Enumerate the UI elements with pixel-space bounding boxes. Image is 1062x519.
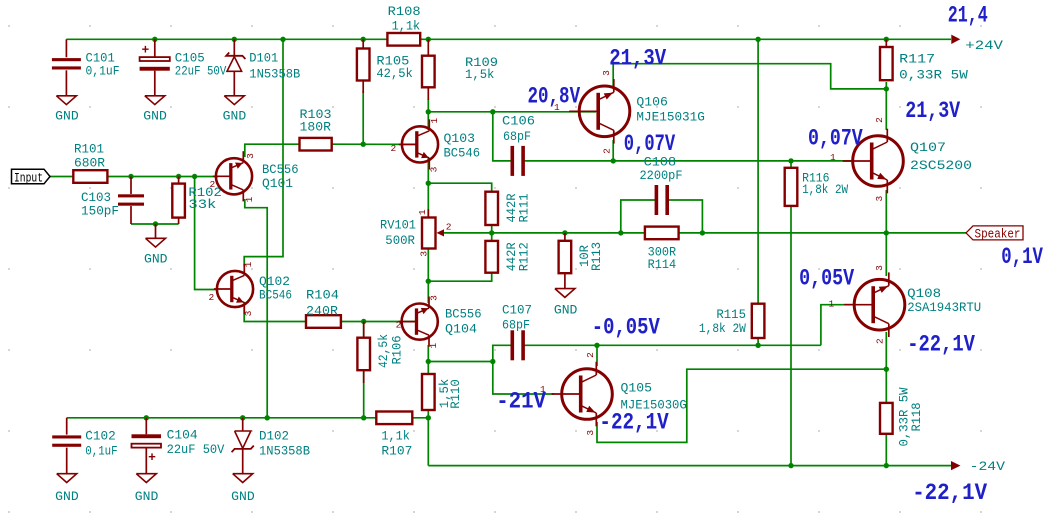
wire C106 right plate to Q106 emitter node bbox=[525, 160, 614, 162]
wire R104 to Q104 base bbox=[341, 321, 417, 323]
pin 3 Q108 bbox=[874, 265, 885, 271]
junction R104 R106 Q104 base bbox=[361, 319, 366, 324]
svg-text:2: 2 bbox=[396, 319, 402, 330]
svg-text:RV101: RV101 bbox=[380, 218, 416, 233]
svg-text:1,8k 2W: 1,8k 2W bbox=[699, 321, 746, 336]
power flag -24V bbox=[951, 461, 961, 470]
svg-text:Q104: Q104 bbox=[445, 321, 477, 336]
svg-text:-24V: -24V bbox=[970, 459, 1006, 474]
svg-text:0,05V: 0,05V bbox=[799, 266, 854, 292]
svg-text:240R: 240R bbox=[306, 304, 338, 319]
wire Q106 emitter node to Q107 base y=161 bbox=[613, 160, 852, 162]
wire Q105 collector stub bbox=[596, 345, 598, 366]
wire R118 bottom to -24V rail bbox=[885, 434, 887, 466]
wire Q103 collector pin bbox=[427, 112, 429, 130]
potentiometer RV101 bbox=[427, 209, 429, 218]
svg-text:2: 2 bbox=[874, 117, 885, 123]
svg-text:BC546: BC546 bbox=[444, 146, 481, 161]
resistor R104 bbox=[306, 315, 341, 328]
junction R103 R105 Q103 base bbox=[361, 142, 366, 147]
transistor Q105 MJE15030G (NPN driver) bbox=[562, 369, 613, 420]
svg-text:Q107: Q107 bbox=[910, 140, 946, 155]
svg-text:R114: R114 bbox=[648, 257, 677, 272]
svg-text:-22,1V: -22,1V bbox=[599, 410, 668, 436]
wire C106 node to Q106 base bbox=[493, 111, 596, 113]
label R112 bbox=[504, 242, 519, 271]
pin 2 Q105 bbox=[585, 352, 596, 358]
junction R102 top bbox=[176, 174, 181, 179]
svg-text:R104: R104 bbox=[306, 288, 339, 303]
svg-text:Speaker: Speaker bbox=[975, 227, 1021, 241]
pin 3 Q107 bbox=[874, 196, 885, 202]
svg-text:C104: C104 bbox=[167, 428, 198, 443]
svg-text:3: 3 bbox=[428, 166, 439, 172]
svg-text:R111: R111 bbox=[517, 193, 532, 222]
svg-text:3: 3 bbox=[585, 430, 596, 436]
svg-text:21,4: 21,4 bbox=[948, 3, 988, 29]
svg-text:GND: GND bbox=[554, 303, 578, 318]
wire input net y=176 (Input to Q101 base) bbox=[50, 176, 218, 178]
label R111 bbox=[504, 193, 519, 222]
resistor R117 bbox=[885, 39, 887, 47]
svg-text:1,1k: 1,1k bbox=[392, 19, 421, 34]
wire Q103 emitter node to RV101 top bbox=[427, 158, 429, 218]
capacitor C103 bbox=[130, 177, 132, 195]
svg-text:20,8V: 20,8V bbox=[528, 83, 581, 109]
pin 3 Q103 bbox=[428, 166, 439, 172]
junction Q103 collector node bbox=[426, 109, 431, 114]
svg-text:-22,1V: -22,1V bbox=[912, 480, 987, 506]
resistor R118 bbox=[880, 403, 893, 434]
svg-text:1: 1 bbox=[428, 343, 439, 349]
wire C108 parallel loop over R114 bbox=[621, 200, 655, 233]
junction speaker node bbox=[884, 230, 889, 235]
junction R118 -24V rail bbox=[884, 463, 889, 468]
junction x=283 riser / +24V rail bbox=[280, 37, 285, 42]
svg-text:D102: D102 bbox=[259, 429, 289, 444]
svg-text:R101: R101 bbox=[74, 142, 104, 157]
svg-text:21,3V: 21,3V bbox=[905, 98, 960, 124]
capacitor C107 bbox=[511, 330, 515, 360]
junction C106 branch bbox=[490, 109, 495, 114]
svg-text:R108: R108 bbox=[388, 4, 421, 19]
junction Q102 base riser bbox=[192, 174, 197, 179]
junction C103 R102 ground node bbox=[153, 221, 158, 226]
label R106 bbox=[376, 334, 391, 368]
wire Q108 emitter to R118 bbox=[885, 332, 887, 403]
svg-text:33k: 33k bbox=[188, 197, 216, 212]
svg-text:1: 1 bbox=[429, 118, 440, 124]
capacitor C106 bbox=[511, 146, 515, 176]
ground C103 R102 bbox=[155, 224, 157, 238]
resistor R110 bbox=[422, 374, 435, 410]
junction C105 / +24V rail bbox=[152, 37, 157, 42]
ground C105 bbox=[145, 96, 165, 105]
pin 3 Q102 bbox=[243, 310, 254, 316]
wire R112 bottom to Q104 collector node y=281 bbox=[428, 273, 491, 282]
resistor R111 bbox=[485, 192, 498, 225]
svg-text:3: 3 bbox=[418, 251, 429, 257]
svg-text:-0,05V: -0,05V bbox=[592, 314, 660, 340]
junction D101 / +24V rail bbox=[232, 37, 237, 42]
svg-text:+: + bbox=[142, 43, 150, 58]
resistor R113 bbox=[564, 233, 566, 241]
wire R106 bottom to bias rail bbox=[363, 372, 365, 418]
svg-text:R106: R106 bbox=[390, 336, 405, 365]
svg-text:2: 2 bbox=[209, 292, 215, 303]
pin 1 Q102 bbox=[243, 261, 254, 267]
zener diode D101 bbox=[233, 39, 235, 56]
wire R116 top stub bbox=[790, 161, 792, 168]
wire C103 R102 ground link y=224 bbox=[131, 223, 179, 225]
wire R103 to Q103 base node bbox=[332, 143, 417, 145]
svg-text:1: 1 bbox=[243, 261, 254, 267]
wire Q106 emitter pin bbox=[612, 140, 614, 161]
svg-text:1: 1 bbox=[417, 209, 428, 215]
wire Q101 collector to R103 y=144 bbox=[245, 144, 300, 157]
wire Q108 collector to speaker node bbox=[885, 233, 887, 276]
pin 3 Q105 bbox=[585, 430, 596, 436]
svg-text:1,8k 2W: 1,8k 2W bbox=[802, 182, 848, 197]
junction R105 / +24V rail bbox=[361, 37, 366, 42]
resistor R102 bbox=[178, 177, 180, 184]
junction Q108 emitter R118 node bbox=[884, 367, 889, 372]
wire +24V top rail bbox=[66, 38, 951, 40]
svg-text:1: 1 bbox=[244, 196, 255, 202]
capacitor C102 bbox=[66, 418, 68, 435]
pin 3 Q101 bbox=[245, 153, 256, 159]
pin 1 Q103 bbox=[429, 118, 440, 124]
svg-text:0,1V: 0,1V bbox=[1001, 244, 1043, 270]
svg-text:2SC5200: 2SC5200 bbox=[910, 158, 972, 173]
junction Q106 emitter node bbox=[611, 158, 616, 163]
svg-text:22uF 50V: 22uF 50V bbox=[167, 442, 225, 457]
svg-text:1N5358B: 1N5358B bbox=[249, 67, 300, 82]
svg-text:C106: C106 bbox=[502, 113, 535, 128]
svg-text:GND: GND bbox=[143, 109, 167, 124]
transistor Q103 BC546 (NPN) bbox=[402, 126, 438, 162]
power flag +24V bbox=[951, 35, 960, 44]
junction R113 top bbox=[562, 230, 567, 235]
svg-text:Q103: Q103 bbox=[444, 131, 476, 146]
svg-text:150pF: 150pF bbox=[81, 203, 119, 218]
svg-text:1,1k: 1,1k bbox=[381, 429, 410, 444]
wire Q107 emitter to speaker node bbox=[885, 190, 887, 233]
svg-text:GND: GND bbox=[231, 489, 255, 504]
junction Q104 emitter node bbox=[426, 359, 431, 364]
wire RV101 bottom to Q104 collector bbox=[427, 249, 429, 304]
svg-text:R118: R118 bbox=[909, 403, 924, 432]
svg-text:42,5k: 42,5k bbox=[376, 66, 413, 81]
svg-text:MJE15031G: MJE15031G bbox=[636, 110, 705, 125]
junction C108 right bbox=[700, 230, 705, 235]
svg-text:GND: GND bbox=[55, 489, 79, 504]
junction C103 top bbox=[128, 174, 133, 179]
junction R111 R112 wiper node bbox=[489, 230, 494, 235]
svg-text:0,1uF: 0,1uF bbox=[86, 63, 120, 78]
transistor Q102 BC546 (NPN) bbox=[217, 271, 253, 307]
svg-text:2: 2 bbox=[874, 338, 885, 344]
pin 2 Q108 bbox=[874, 338, 885, 344]
global label Speaker bbox=[966, 226, 1023, 240]
pin 3 Q104 bbox=[428, 295, 439, 301]
wire C108 right to node bbox=[668, 200, 702, 233]
wire R107 to -24V corner bbox=[412, 418, 428, 466]
svg-text:1: 1 bbox=[830, 152, 836, 163]
junction R109 / +24V rail bbox=[426, 37, 431, 42]
svg-text:R107: R107 bbox=[381, 444, 412, 459]
wire Q105 base branch bbox=[493, 362, 554, 395]
junction C108 left bbox=[618, 230, 623, 235]
wire R110 leads bbox=[427, 362, 429, 375]
svg-text:1N5358B: 1N5358B bbox=[259, 443, 310, 458]
global label Input bbox=[12, 169, 51, 184]
label R118 bbox=[897, 387, 912, 446]
wire C107 to main node y=345.3 bbox=[525, 344, 821, 346]
svg-text:GND: GND bbox=[144, 252, 168, 267]
svg-text:3: 3 bbox=[874, 196, 885, 202]
capacitor C101 bbox=[65, 39, 67, 57]
junction D102 bias rail bbox=[240, 415, 245, 420]
svg-text:3: 3 bbox=[243, 310, 254, 316]
pin 3 RV101 bbox=[418, 251, 429, 257]
wire Q103 collector node to C106 node y=112 bbox=[428, 111, 493, 113]
svg-text:R115: R115 bbox=[716, 307, 746, 322]
ground D102 bbox=[233, 474, 253, 483]
junction C107 branch bbox=[490, 359, 495, 364]
svg-text:Q106: Q106 bbox=[636, 95, 668, 110]
svg-text:GND: GND bbox=[223, 109, 247, 124]
svg-text:21,3V: 21,3V bbox=[609, 45, 666, 71]
pin 2 Q107 bbox=[874, 117, 885, 123]
capacitor C108 bbox=[655, 185, 659, 215]
svg-text:Q101: Q101 bbox=[262, 176, 293, 191]
pin 3 Q106 bbox=[601, 70, 612, 76]
svg-text:2: 2 bbox=[602, 148, 613, 154]
svg-text:BC546: BC546 bbox=[259, 287, 292, 302]
transistor Q107 2SC5200 (NPN output) bbox=[853, 136, 904, 187]
svg-text:D101: D101 bbox=[249, 50, 278, 65]
wire R115 bottom stub bbox=[757, 336, 759, 345]
resistor R114 bbox=[645, 227, 679, 240]
svg-text:68pF: 68pF bbox=[503, 129, 531, 144]
resistor R112 bbox=[485, 241, 498, 273]
junction x=791 -24V rail bbox=[788, 463, 793, 468]
svg-text:R112: R112 bbox=[517, 242, 532, 271]
wire +24V to R115 riser x=758 bbox=[757, 39, 759, 303]
resistor R108 bbox=[387, 33, 420, 46]
svg-text:0,07V: 0,07V bbox=[808, 126, 863, 152]
svg-text:BC556: BC556 bbox=[262, 162, 299, 177]
capacitor C105 (polarized) bbox=[154, 39, 156, 57]
svg-text:+: + bbox=[148, 450, 156, 465]
svg-text:1: 1 bbox=[829, 299, 835, 310]
resistor R105 bbox=[362, 39, 364, 48]
wire R106 top stub bbox=[363, 322, 365, 338]
svg-text:2200pF: 2200pF bbox=[640, 168, 683, 183]
junction R110 bias rail bbox=[426, 415, 431, 420]
wire Q104 emitter node y=361.5 bbox=[427, 345, 429, 362]
capacitor C104 (polarized) bbox=[145, 418, 147, 435]
wire R116 bottom to -24V rail x=791 bbox=[790, 204, 792, 466]
svg-text:2: 2 bbox=[210, 179, 216, 190]
wire R109 bottom to Q103 collector node bbox=[427, 99, 429, 112]
label R110 bbox=[437, 379, 452, 409]
ground C104 bbox=[136, 474, 156, 483]
label R113 bbox=[577, 245, 592, 267]
pin 1 Q101 bbox=[244, 196, 255, 202]
ground C101 bbox=[56, 96, 76, 105]
transistor Q101 BC556 (PNP) bbox=[216, 158, 252, 194]
transistor Q108 2SA1943RTU (PNP output) bbox=[854, 279, 905, 330]
svg-text:0,33R 5W: 0,33R 5W bbox=[899, 67, 968, 82]
wire node to Q108 base jog bbox=[821, 305, 854, 346]
resistor R116 bbox=[785, 168, 798, 206]
svg-text:2: 2 bbox=[391, 143, 397, 154]
wire Q105 emitter loop to Q108 emitter node bbox=[597, 369, 886, 442]
svg-text:1,5k: 1,5k bbox=[465, 67, 495, 82]
wire RV101 wiper output y=233 to Speaker bbox=[444, 232, 966, 234]
wire Q107 collector to node bbox=[885, 89, 887, 130]
wire C106 branch down x=492.8 bbox=[493, 112, 511, 161]
svg-text:0,1uF: 0,1uF bbox=[85, 443, 117, 458]
svg-text:-21V: -21V bbox=[496, 389, 546, 415]
svg-text:3: 3 bbox=[874, 265, 885, 271]
svg-text:GND: GND bbox=[135, 489, 159, 504]
wire -24V bottom rail bbox=[428, 465, 951, 467]
junction C104 bias rail bbox=[144, 415, 149, 420]
svg-text:3: 3 bbox=[245, 153, 256, 159]
svg-text:680R: 680R bbox=[74, 156, 105, 171]
zener diode D102 bbox=[242, 418, 244, 431]
svg-text:180R: 180R bbox=[300, 120, 332, 135]
resistor R103 bbox=[300, 138, 332, 151]
junction Q105 collector node bbox=[594, 343, 599, 348]
transistor Q106 MJE15031G (PNP driver) bbox=[579, 86, 630, 137]
svg-text:2: 2 bbox=[585, 352, 596, 358]
transistor Q104 BC556 (PNP) bbox=[402, 304, 438, 340]
resistor R109 bbox=[427, 39, 429, 55]
junction R115 bottom node bbox=[755, 343, 760, 348]
svg-text:22uF 50V: 22uF 50V bbox=[175, 63, 227, 78]
svg-text:GND: GND bbox=[55, 109, 79, 124]
ground D101 bbox=[224, 96, 244, 105]
wire R105 bottom to node y=144 bbox=[362, 91, 364, 144]
wire R117 bottom stub bbox=[885, 82, 887, 89]
junction R117 bottom Q107 collector bbox=[884, 86, 889, 91]
junction x=267 riser bias rail bbox=[265, 415, 270, 420]
svg-text:R113: R113 bbox=[589, 242, 604, 271]
svg-text:R110: R110 bbox=[448, 379, 463, 409]
svg-text:Q105: Q105 bbox=[621, 381, 653, 396]
pin 1 RV101 bbox=[417, 209, 428, 215]
wire Q102 collector to +24V riser x=283 bbox=[244, 39, 283, 266]
svg-text:BC556: BC556 bbox=[445, 307, 482, 322]
svg-text:68pF: 68pF bbox=[502, 318, 530, 333]
svg-text:0,07V: 0,07V bbox=[624, 131, 676, 157]
svg-text:3: 3 bbox=[428, 295, 439, 301]
svg-text:2SA1943RTU: 2SA1943RTU bbox=[907, 300, 981, 315]
pin 1 Q104 bbox=[428, 343, 439, 349]
resistor R107 bbox=[376, 412, 412, 425]
svg-text:+24V: +24V bbox=[965, 38, 1003, 53]
wire R111 R112 junction stubs bbox=[491, 225, 493, 241]
svg-text:Input: Input bbox=[14, 171, 43, 185]
resistor R101 bbox=[73, 170, 107, 183]
resistor R115 bbox=[752, 304, 765, 338]
svg-text:500R: 500R bbox=[385, 233, 415, 248]
resistor R106 bbox=[363, 322, 365, 338]
ground C102 bbox=[57, 474, 77, 483]
wire Q102 emitter to R104 bbox=[244, 302, 306, 322]
junction R116 top node bbox=[788, 158, 793, 163]
ground R113 bbox=[555, 289, 575, 298]
svg-text:R117: R117 bbox=[899, 52, 935, 67]
junction Q103 emitter node bbox=[426, 181, 431, 186]
junction R115 riser / +24V rail bbox=[755, 37, 760, 42]
svg-text:2: 2 bbox=[446, 222, 452, 233]
junction R117 / +24V rail bbox=[884, 37, 889, 42]
wire C107 branch up bbox=[493, 345, 511, 361]
svg-text:Q108: Q108 bbox=[907, 286, 941, 301]
svg-text:-22,1V: -22,1V bbox=[907, 332, 975, 358]
svg-text:C102: C102 bbox=[85, 429, 116, 444]
wire Q101 emitter jog to x=267 riser bbox=[245, 199, 267, 418]
wire input to Q102 base riser x=194.6 bbox=[195, 177, 218, 290]
wire Q106 collector jog to R117 bottom node bbox=[613, 64, 886, 89]
junction Q104 collector RV101 bottom bbox=[426, 279, 431, 284]
junction R106 bias rail bbox=[361, 415, 366, 420]
wire bias rail y=418 bottom left bbox=[67, 417, 377, 419]
wire node y=183 to R111 top bbox=[428, 183, 491, 192]
pin 2 Q106 bbox=[602, 148, 613, 154]
svg-text:C107: C107 bbox=[502, 303, 532, 318]
